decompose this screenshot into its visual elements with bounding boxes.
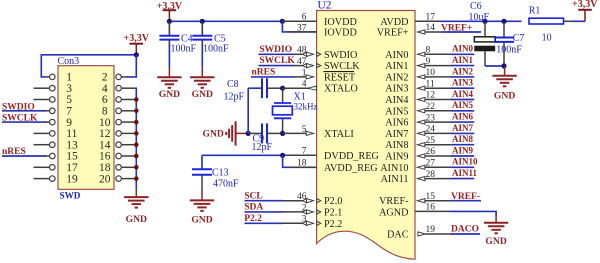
pin AIN9 input arrow [418, 154, 425, 158]
wire AGND pin16 [415, 210, 451, 212]
wire C8/C9 riser [247, 88, 249, 133]
Con3 pin 17 stub wire [34, 166, 50, 168]
power +3.3V (right) [584, 10, 586, 21]
junction GND bus row 10 [134, 120, 139, 125]
pin AIN10 input arrow [418, 165, 425, 169]
junction rail-C4 [167, 19, 172, 24]
ground (below C5) [201, 67, 203, 77]
junction GND bus row 14 [134, 142, 139, 147]
wire SWDIO [2, 110, 46, 112]
capacitor C13 [201, 155, 203, 169]
svg-text:+3,3V: +3,3V [124, 33, 150, 44]
wire XTALI to pin5 [283, 132, 310, 134]
svg-text:SWD: SWD [60, 190, 81, 200]
Con3 pin 14 circle [116, 142, 122, 148]
pin AIN8 input arrow [418, 143, 425, 147]
junction GND bus row 8 [134, 109, 139, 114]
svg-text:P2.0: P2.0 [324, 196, 342, 207]
Con3 pin 14 stub wire [121, 144, 137, 146]
svg-text:C8: C8 [227, 79, 239, 90]
svg-text:AIN6: AIN6 [385, 118, 408, 129]
svg-text:SWCLK: SWCLK [259, 56, 295, 66]
svg-text:C7: C7 [513, 33, 525, 44]
junction rail-C5 [200, 19, 205, 24]
svg-text:GND: GND [191, 215, 212, 226]
wire SWCLK [2, 121, 46, 123]
pin 14 input arrow [418, 30, 425, 34]
junction GND bus row 18 [134, 165, 139, 170]
ground (below C13) [201, 191, 203, 201]
Con3 pin 3 circle [50, 85, 56, 91]
wire AIN11 [424, 178, 452, 180]
wire DACO [425, 233, 452, 235]
svg-text:16: 16 [99, 151, 111, 163]
Con3 pin 4 stub wire [121, 87, 137, 89]
wire AVDD pin17 [415, 20, 442, 22]
svg-text:13: 13 [66, 139, 78, 151]
wire AIN6 [424, 121, 452, 123]
svg-text:XTALO: XTALO [324, 84, 358, 95]
capacitor C6 10uF (electrolytic) [484, 21, 486, 37]
svg-text:AIN1: AIN1 [452, 55, 474, 65]
svg-text:P2.1: P2.1 [324, 207, 342, 218]
svg-text:AIN2: AIN2 [452, 66, 474, 76]
wire nRES to pin1 [251, 76, 294, 78]
svg-text:AIN7: AIN7 [385, 129, 408, 140]
wire AIN5 [424, 110, 452, 112]
svg-text:AIN10: AIN10 [380, 163, 408, 174]
svg-text:AIN0: AIN0 [385, 50, 408, 61]
junction GND bus row 12 [134, 131, 139, 136]
wire XTALO to pin4 [283, 87, 317, 89]
Con3 pin 6 circle [116, 97, 122, 103]
svg-text:19: 19 [66, 173, 78, 185]
wire SCL to pin46 [245, 200, 284, 202]
Con3 pin 9 circle [50, 119, 56, 125]
power +3.3V (Con3) [135, 44, 137, 55]
svg-text:SWDIO: SWDIO [259, 45, 292, 55]
IC U2 body [317, 11, 415, 260]
svg-text:AIN2: AIN2 [385, 72, 408, 83]
svg-text:+3,3V: +3,3V [157, 1, 183, 12]
pin AIN1 input arrow [418, 64, 425, 68]
Con3 pin 18 circle [116, 165, 122, 171]
svg-text:AIN6: AIN6 [452, 112, 474, 122]
U2 RESET overline [324, 71, 355, 73]
svg-text:4: 4 [102, 83, 108, 95]
wire AIN1 [424, 65, 452, 67]
pin 19 output arrow [418, 232, 425, 236]
svg-text:AIN1: AIN1 [385, 61, 408, 72]
junction XTALO [280, 86, 285, 91]
power +3.3V (top-left rail) [168, 10, 170, 21]
Con3 pin 11 stub wire [34, 132, 50, 134]
svg-text:AIN11: AIN11 [452, 168, 478, 178]
svg-text:SWDIO: SWDIO [324, 50, 357, 61]
Con3 pin 11 circle [50, 131, 56, 137]
wire DVDD_REG [202, 154, 283, 156]
wire SDA to pin2 [245, 211, 284, 213]
svg-text:nRES: nRES [252, 68, 276, 78]
capacitor C9 [248, 132, 262, 134]
svg-text:GND: GND [192, 89, 213, 100]
svg-text:AIN7: AIN7 [452, 123, 474, 133]
pin AIN11 input arrow [418, 177, 425, 181]
wire nRES [2, 155, 46, 157]
pin AIN6 input arrow [418, 120, 425, 124]
svg-text:AIN9: AIN9 [385, 152, 408, 163]
svg-text:470nF: 470nF [213, 178, 239, 189]
Con3 pin 7 circle [50, 108, 56, 114]
ground (C6/C7) [504, 66, 506, 76]
capacitor C7 [503, 21, 505, 37]
Con3 pin 2 circle [116, 74, 122, 80]
wire IOVDD pin6 [282, 20, 316, 22]
wire AIN2 [424, 76, 452, 78]
svg-text:VREF+: VREF+ [377, 28, 409, 39]
svg-text:GND: GND [159, 89, 180, 100]
wire AIN3 [424, 87, 452, 89]
Con3 pin 13 circle [50, 142, 56, 148]
svg-text:AIN4: AIN4 [385, 95, 408, 106]
Con3 pin 5 circle [50, 97, 56, 103]
ground (AGND) [495, 215, 497, 223]
svg-text:DVDD_REG: DVDD_REG [324, 151, 380, 162]
connector Con3 body [58, 66, 114, 190]
svg-text:VREF-: VREF- [379, 196, 409, 207]
wire SWDIO to pin48 [259, 53, 295, 55]
pin AIN3 input arrow [418, 86, 425, 90]
svg-text:5: 5 [66, 94, 72, 106]
svg-text:GND: GND [203, 129, 224, 140]
wire AIN8 [424, 144, 452, 146]
svg-text:SWCLK: SWCLK [324, 61, 360, 72]
wire AVDD_REG [283, 155, 317, 167]
svg-text:P2.2: P2.2 [324, 219, 342, 230]
svg-text:8: 8 [102, 106, 108, 118]
pin 15 input arrow [418, 199, 425, 203]
wire R1 right [564, 20, 574, 22]
pin AIN4 input arrow [418, 97, 425, 101]
Con3 pin 8 circle [116, 108, 122, 114]
pin AIN0 input arrow [418, 52, 425, 56]
junction crystal gnd [246, 131, 251, 136]
pin 5 input arrow [306, 131, 313, 135]
svg-text:IOVDD: IOVDD [324, 27, 357, 38]
svg-text:14: 14 [99, 139, 111, 151]
Con3 pin 17 circle [50, 165, 56, 171]
junction GND bus row 6 [134, 97, 139, 102]
Con3 pin 18 stub wire [121, 166, 137, 168]
wire AIN7 [424, 132, 452, 134]
svg-text:GND: GND [126, 214, 147, 225]
svg-text:AIN8: AIN8 [452, 134, 474, 144]
pin 1 input arrow [306, 75, 313, 79]
Con3 pin 10 circle [116, 119, 122, 125]
svg-text:7: 7 [66, 106, 72, 118]
svg-text:20: 20 [99, 173, 111, 185]
junction GND bus row 16 [134, 154, 139, 159]
Con3 pin 10 stub wire [121, 121, 137, 123]
svg-text:10: 10 [99, 117, 111, 129]
svg-text:AIN5: AIN5 [452, 100, 474, 110]
svg-text:AIN8: AIN8 [385, 140, 408, 151]
svg-text:AIN10: AIN10 [452, 157, 478, 167]
svg-text:Con3: Con3 [58, 56, 80, 67]
pin AIN5 input arrow [418, 109, 425, 113]
Con3 pin 16 circle [116, 153, 122, 159]
svg-text:XTALI: XTALI [324, 129, 354, 140]
pin AIN7 input arrow [418, 131, 425, 135]
junction rail-IOVDD [280, 19, 285, 24]
pin AIN2 input arrow [418, 75, 425, 79]
svg-text:2: 2 [102, 72, 108, 84]
wire AIN4 [424, 99, 452, 101]
svg-text:DACO: DACO [451, 224, 479, 234]
wire GND bus (Con3 right) [135, 88, 137, 189]
Con3 pin 13 stub wire [34, 144, 50, 146]
Con3 pin 12 stub wire [121, 132, 137, 134]
Con3 pin 3 stub wire [34, 87, 50, 89]
Con3 pin 19 stub wire [34, 178, 50, 180]
capacitor C8 [248, 87, 262, 89]
svg-text:AIN5: AIN5 [385, 106, 408, 117]
wire VREF+ [424, 31, 443, 33]
svg-text:AVDD_REG: AVDD_REG [324, 163, 378, 174]
svg-text:12pF: 12pF [252, 142, 273, 153]
svg-text:AIN0: AIN0 [452, 44, 474, 54]
svg-text:GND: GND [485, 236, 506, 247]
wire +3.3V rail [169, 20, 282, 22]
junction AVDD-C7 [501, 19, 506, 24]
Con3 pin 16 stub wire [121, 155, 137, 157]
svg-text:AIN11: AIN11 [381, 174, 409, 185]
pin 48 i/o arrows [303, 52, 307, 56]
ground (below C4) [168, 67, 170, 77]
wire AIN10 [424, 166, 452, 168]
Con3 pin 20 stub wire [121, 178, 137, 180]
svg-text:DAC: DAC [387, 230, 409, 241]
Con3 pin 19 circle [50, 176, 56, 182]
svg-text:AVDD: AVDD [380, 17, 408, 28]
svg-text:9: 9 [66, 117, 72, 129]
wire VREF- [424, 200, 452, 202]
junction AVDD-C6 [482, 19, 487, 24]
svg-text:AIN4: AIN4 [452, 89, 474, 99]
svg-text:100nF: 100nF [496, 44, 522, 55]
pin 46 i/o arrows [303, 199, 307, 203]
svg-text:6: 6 [102, 94, 108, 106]
svg-text:10uF: 10uF [469, 12, 490, 23]
pin 3 i/o arrows [303, 221, 307, 225]
svg-text:AIN3: AIN3 [385, 84, 408, 95]
svg-text:32kHz: 32kHz [294, 101, 318, 111]
capacitor C4 [168, 21, 170, 36]
pin 4 output arrow [308, 86, 317, 90]
svg-text:18: 18 [99, 162, 111, 174]
Con3 pin 4 circle [116, 85, 122, 91]
resistor R1 [529, 18, 564, 24]
svg-text:RESET: RESET [324, 72, 356, 83]
svg-text:10: 10 [542, 33, 552, 44]
wire SWCLK to pin47 [259, 65, 295, 67]
Con3 pin 8 stub wire [121, 110, 137, 112]
Con3 pin 5 stub wire [34, 99, 50, 101]
Con3 pin 20 circle [116, 176, 122, 182]
svg-text:12pF: 12pF [224, 91, 245, 102]
pin 47 i/o arrows [303, 64, 307, 68]
junction DVDD_REG [280, 153, 285, 158]
svg-text:AIN3: AIN3 [452, 78, 474, 88]
wire IOVDD pin37 drop [282, 21, 316, 32]
junction GND bus row 20 [134, 176, 139, 181]
svg-text:12: 12 [99, 128, 111, 140]
wire C6/C7 bottoms [485, 65, 504, 67]
wire AIN9 [424, 155, 452, 157]
junction C7-GND [501, 63, 506, 68]
svg-text:IOVDD: IOVDD [324, 17, 357, 28]
svg-text:17: 17 [66, 162, 78, 174]
wire AIN0 [424, 53, 452, 55]
pin 2 i/o arrows [303, 210, 307, 214]
svg-text:AIN9: AIN9 [452, 145, 474, 155]
capacitor C5 [201, 21, 203, 36]
svg-text:3: 3 [66, 83, 72, 95]
ground (Con3 bus) [135, 189, 137, 197]
Con3 pin 1 circle [50, 74, 56, 80]
junction +3.3V Con3 [134, 52, 139, 57]
crystal X1 [282, 88, 284, 103]
svg-text:15: 15 [66, 151, 78, 163]
junction XTALI [280, 131, 285, 136]
wire P2.2 to pin3 [245, 222, 284, 224]
svg-text:11: 11 [66, 128, 77, 140]
Con3 pin 15 circle [50, 153, 56, 159]
svg-text:100nF: 100nF [171, 44, 197, 55]
svg-text:C13: C13 [212, 167, 229, 178]
svg-text:C6: C6 [470, 1, 482, 12]
svg-text:U2: U2 [318, 0, 332, 12]
wire Con3 pin2 riser [121, 76, 128, 78]
svg-text:AGND: AGND [379, 208, 408, 219]
svg-text:100nF: 100nF [203, 44, 229, 55]
svg-text:R1: R1 [529, 5, 541, 16]
svg-text:+3,3V: +3,3V [572, 0, 598, 10]
wire Con3 pin1 to +3.3V loop [46, 76, 50, 78]
svg-text:GND: GND [494, 90, 515, 101]
Con3 pin 6 stub wire [121, 99, 137, 101]
Con3 pin 12 circle [116, 131, 122, 137]
svg-text:1: 1 [66, 72, 72, 84]
